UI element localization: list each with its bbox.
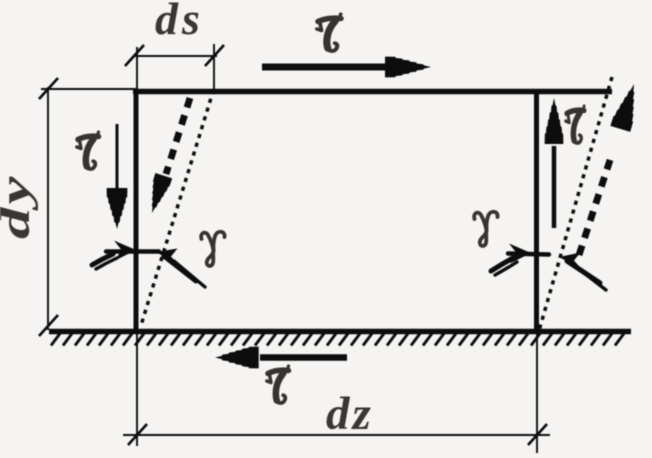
label tau bottom (267, 366, 289, 403)
dimension dS line (133, 55, 217, 57)
gamma angle arrows bottom-right corner (491, 254, 606, 291)
dimension dS left tick (125, 45, 144, 66)
deformed right edge (thin dashed) (540, 77, 613, 329)
dimension dz right tick (528, 424, 547, 445)
label tau top (317, 14, 341, 51)
ground hatching (51, 334, 624, 346)
svg-text:dz: dz (326, 388, 374, 440)
dimension dy top tick (39, 78, 58, 99)
dimension dz right extension (536, 334, 538, 453)
dimension dS left extension (136, 47, 138, 89)
dimension dz left extension (136, 334, 138, 446)
element left edge (thick) (134, 89, 139, 332)
svg-text:dy: dy (0, 174, 38, 239)
element right edge (thick) (534, 89, 539, 332)
label tau left (77, 132, 99, 169)
dashed shear arrow right (deformed tau, up-right) (579, 157, 611, 255)
deformed left edge (thin dashed) (141, 90, 214, 327)
label gamma left (201, 232, 224, 266)
shear stress arrow tau bottom (left-pointing) (260, 354, 347, 361)
dashed shear arrow left (deformed tau, down-left) (166, 98, 190, 174)
svg-text:ds: ds (155, 0, 204, 44)
element top edge (thick) (133, 89, 612, 94)
label tau right (566, 106, 584, 143)
dimension dy extension top (41, 88, 136, 90)
dimension dz line (123, 434, 550, 436)
dimension dy line (47, 87, 49, 330)
shear stress arrow tau right (up-pointing) (552, 146, 557, 228)
shear stress arrow tau left (down-pointing) (116, 124, 119, 192)
gamma angle arrows bottom-left corner (92, 252, 205, 288)
dimension dS right tick (205, 45, 224, 66)
dimension dz left tick (128, 424, 147, 445)
dimension dy bottom tick (39, 315, 58, 336)
ground line (thick) (49, 329, 631, 334)
dimension dS right extension (213, 44, 215, 89)
shear stress arrow tau top (right-pointing) (262, 64, 390, 71)
label gamma right (474, 212, 497, 246)
